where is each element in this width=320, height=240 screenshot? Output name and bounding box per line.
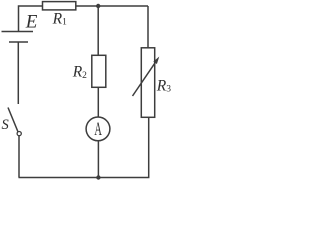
svg-text:A: A xyxy=(94,120,102,140)
wire battery to switch xyxy=(17,42,19,104)
svg-text:E: E xyxy=(25,11,38,32)
node junction top xyxy=(96,4,100,8)
resistor R2 xyxy=(92,55,106,87)
wire ammeter to bottom xyxy=(97,141,99,177)
wire top middle segment xyxy=(76,5,148,7)
svg-text:S: S xyxy=(2,117,10,133)
node junction bottom xyxy=(96,175,100,179)
wire middle upper xyxy=(97,6,99,55)
wire right upper xyxy=(147,6,149,48)
wire switch to bottom xyxy=(18,136,20,178)
switch S xyxy=(8,108,21,136)
wire top-left segment xyxy=(19,6,43,32)
wire R2 to ammeter xyxy=(97,87,99,116)
resistor R1 xyxy=(43,2,76,10)
ammeter A xyxy=(86,117,110,141)
wire bottom segment xyxy=(19,117,149,177)
battery E xyxy=(2,32,34,43)
rheostat R3 xyxy=(133,48,160,118)
